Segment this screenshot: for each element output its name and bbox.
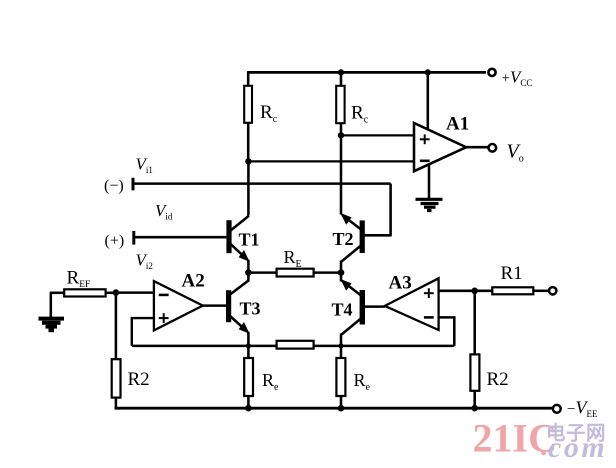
svg-text:A2: A2: [182, 271, 205, 292]
svg-text:Re: Re: [354, 370, 371, 393]
wire Rc-left top: [247, 71, 250, 86]
svg-text:A3: A3: [389, 273, 412, 294]
wire T2 emitter vertical: [340, 135, 343, 214]
wire Re right to rail: [340, 396, 343, 408]
node T3 emitter junction: [246, 343, 251, 348]
input terminal (-) tick: [132, 178, 135, 191]
transistor T2: [340, 213, 364, 273]
svg-text:(+): (+): [105, 233, 125, 250]
terminal +Vcc: [488, 69, 495, 76]
svg-text:−VEE: −VEE: [567, 398, 598, 420]
node B (T2 collector / T4 emitter / RE right): [338, 269, 345, 276]
transistor T3: [226, 273, 250, 359]
svg-text:A1: A1: [446, 114, 469, 135]
wire node A to RE: [248, 271, 277, 274]
wire A3 output to T4 base: [365, 305, 385, 308]
node rail R2 right: [471, 405, 478, 412]
wire A1 power from rail: [427, 72, 430, 130]
wire A2 output to T3 base: [203, 304, 226, 307]
node top rail junction x428: [425, 69, 431, 75]
resistor RE: [277, 269, 314, 277]
wire emitter line y346 right: [314, 345, 455, 348]
wire (+) input line to T1 base: [134, 236, 227, 239]
svg-text:R2: R2: [128, 369, 150, 390]
wire Re left to rail: [247, 396, 250, 408]
wire node to A1 minus input: [248, 160, 414, 162]
ground under A1: [416, 199, 443, 210]
wire R2 right to rail: [473, 391, 476, 409]
wire A1 to ground: [428, 164, 431, 199]
resistor R2 left: [112, 359, 121, 397]
svg-text:(−): (−): [104, 178, 124, 195]
svg-text:REF: REF: [67, 268, 91, 291]
svg-text:Vo: Vo: [507, 141, 524, 165]
input terminal (+) tick: [132, 231, 135, 245]
resistor Re right: [336, 358, 345, 396]
resistor Re left: [244, 358, 253, 396]
svg-text:Rc: Rc: [351, 103, 369, 126]
svg-text:R1: R1: [501, 263, 523, 284]
svg-text:+VCC: +VCC: [502, 68, 533, 89]
svg-text:R2: R2: [487, 369, 509, 390]
ground at REF: [39, 319, 65, 331]
wire T2 base connector: [365, 234, 392, 237]
wire A1 output: [466, 146, 488, 149]
wire Rc-right top: [340, 72, 343, 86]
svg-text:Vid: Vid: [155, 201, 173, 222]
transistor T4: [340, 273, 365, 359]
wire A3 minus feedback loop: [439, 317, 455, 346]
wire REF to ground: [50, 293, 53, 318]
wire A2 plus feedback loop: [132, 318, 154, 346]
wire REF right to node: [106, 292, 118, 295]
wire Rc-left bottom to node: [247, 123, 250, 162]
wire REF left: [50, 292, 65, 295]
svg-text:Vi1: Vi1: [136, 155, 153, 176]
node top rail junction x341: [338, 69, 344, 75]
resistor REF: [64, 289, 105, 296]
svg-text:Vi2: Vi2: [136, 251, 153, 272]
resistor between emitters (lower): [277, 341, 314, 349]
wire Rc-right bottom to node: [340, 123, 343, 136]
terminal R1 right: [549, 287, 556, 294]
wire node to A1 plus input: [341, 134, 415, 136]
wire node to R1: [475, 290, 493, 293]
svg-text:T3: T3: [240, 299, 261, 319]
node rail Re right: [338, 405, 345, 412]
wire node down to R2 left: [115, 293, 118, 360]
wire RE to node B: [314, 271, 341, 274]
wire node down to R2 right: [473, 291, 476, 355]
node A (T1 emitter / T3 collector / RE left): [245, 269, 252, 276]
svg-text:Rc: Rc: [260, 102, 278, 125]
resistor R2 right: [470, 354, 479, 390]
wire top +Vcc rail: [248, 71, 487, 74]
wire T1 collector vertical: [247, 161, 250, 215]
op-amp A2: [154, 281, 203, 330]
wire (-) input line: [133, 182, 391, 185]
terminal Vo: [489, 144, 497, 152]
resistor Rc right: [336, 86, 344, 123]
svg-text:RE: RE: [284, 247, 302, 270]
op-amp A1: [414, 123, 466, 171]
svg-text:T1: T1: [239, 230, 260, 250]
wire emitter line y346 left: [132, 345, 277, 348]
wire bottom -Vee rail: [115, 407, 553, 410]
node REF / A2 minus / R2: [113, 289, 120, 296]
resistor Rc left: [244, 86, 252, 123]
node rail Re left: [245, 405, 252, 412]
node T2 emitter / A1 plus: [338, 132, 344, 138]
node R1 / A3 plus / R2 right: [471, 288, 478, 295]
terminal -Vee: [553, 405, 561, 413]
wire (-) line down to T2 base: [389, 184, 392, 236]
wire A3 plus input: [439, 290, 475, 293]
resistor R1: [492, 287, 533, 294]
wire A2 minus input: [116, 291, 154, 294]
op-amp A3: [385, 278, 439, 330]
svg-text:T2: T2: [333, 229, 354, 249]
wire R1 to terminal: [533, 290, 548, 293]
wire R2 left to rail: [115, 398, 118, 409]
transistor T1: [226, 216, 249, 273]
node collector T1 / A1 minus: [245, 158, 251, 164]
svg-text:T4: T4: [332, 300, 353, 320]
node T4 collector junction: [338, 343, 343, 348]
svg-text:com: com: [548, 431, 607, 464]
svg-text:Re: Re: [262, 370, 279, 393]
